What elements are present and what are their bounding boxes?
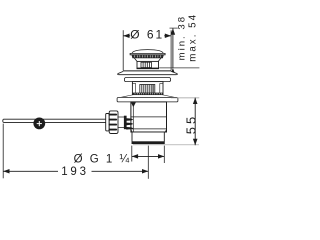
clamp cone [124,116,127,130]
dimension min38/max54 extension lines [159,28,199,68]
cap stem hatched insert [141,62,151,67]
dimension 193 line with arrows [3,169,148,174]
dimension min38/max54 vertical line with arrows [171,28,176,74]
dimension Ø61 extension lines [123,30,171,70]
upper flange [118,71,178,75]
dimension Ø61 arrows and line [123,34,171,39]
svg-text:Ø 61: Ø 61 [130,28,164,42]
dimension 55 extension lines [133,98,199,145]
column bottom knurl band [133,93,163,95]
svg-text:max. 54: max. 54 [188,13,199,62]
bottom flange trumpet [119,95,177,98]
svg-text:55: 55 [183,114,198,134]
knurled nut [109,111,118,134]
lift rod [3,119,106,122]
waste body [131,102,167,132]
rod washer ring [106,114,110,131]
pop-up cap rim plate [130,53,165,54]
rod end extension line [2,124,4,179]
pop-up cap knurled band [132,55,164,58]
link neck [118,117,124,128]
bottom flange plate [117,97,178,102]
rod ball knob [33,118,45,130]
cap stem block [137,61,159,68]
column body [132,82,163,95]
pop-up cap dome [132,50,163,54]
svg-text:min. 38: min. 38 [177,15,188,60]
cap neck taper [134,58,161,62]
threaded tailpiece [132,132,164,144]
svg-text:193: 193 [61,166,89,178]
centerline extension [147,146,149,179]
tailpiece extension lines [132,146,165,163]
column hatched insert [140,85,155,94]
dimension G 1 1/4 line with arrows [132,154,165,159]
clamp tines [126,118,133,129]
seat plate [124,78,170,82]
svg-text:Ø G 1 ¼: Ø G 1 ¼ [74,153,131,165]
dimension 55 line with arrows [193,98,198,146]
